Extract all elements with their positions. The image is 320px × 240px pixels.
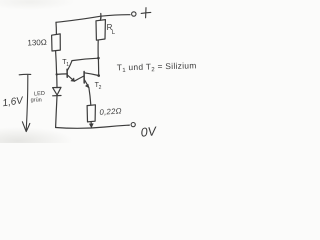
svg-text:grün: grün xyxy=(31,98,42,104)
label 1,6V xyxy=(2,95,25,109)
label RL xyxy=(107,23,116,36)
wire: T1 emitter to T2 base xyxy=(74,76,84,81)
label T2 xyxy=(95,82,102,91)
value label 130 ohm xyxy=(27,38,47,48)
wire: T2 emitter down to R2 xyxy=(89,88,91,105)
wire: bottom 0V rail xyxy=(56,125,130,128)
LED D1 (gruen) xyxy=(53,87,61,95)
node: T2 collector junction xyxy=(97,74,100,77)
wire: R2 bottom lead to 0V rail with arrowhead xyxy=(89,122,93,128)
svg-text:130Ω: 130Ω xyxy=(27,38,47,48)
node: RL tap tick on top rail xyxy=(100,14,102,19)
value label 0,22 ohm xyxy=(99,106,122,117)
wire: LED cathode down to 0V rail corner xyxy=(56,96,57,127)
value label LED gruen xyxy=(31,91,46,104)
voltage arrow 1,6V (bar, shaft, arrowhead) xyxy=(19,74,31,131)
node: T1 base junction xyxy=(56,73,58,75)
resistor RL xyxy=(96,20,105,41)
resistor R2 xyxy=(87,105,95,122)
wire: RL bottom lead down to collector node xyxy=(97,40,99,57)
wire: RL lead from top rail xyxy=(99,16,102,20)
svg-text:2: 2 xyxy=(99,85,102,91)
label + sign xyxy=(141,8,151,18)
svg-text:0,22Ω: 0,22Ω xyxy=(99,106,122,117)
terminal 0V (open circle) xyxy=(131,123,135,127)
wire: T1 collector rail to collector node xyxy=(72,58,98,60)
resistor R1 xyxy=(52,34,61,51)
wire: base node down to LED anode xyxy=(56,74,58,87)
transistor T2 xyxy=(84,72,98,88)
terminal + (open circle) xyxy=(132,12,136,16)
svg-text:1: 1 xyxy=(66,62,69,68)
transistor T1 xyxy=(57,61,75,82)
label 0V xyxy=(140,124,158,140)
wire: R1 to T1 base node xyxy=(56,51,57,74)
node: collector junction upper xyxy=(97,57,100,60)
wire: collector node down to T2 collector xyxy=(97,58,99,75)
svg-text:LED: LED xyxy=(34,91,45,98)
label T1 xyxy=(62,59,69,68)
note: T1 und T2 = Silizium xyxy=(117,60,197,74)
wire: top positive rail xyxy=(56,15,130,23)
wire: rail down to resistor R1 xyxy=(55,22,57,34)
